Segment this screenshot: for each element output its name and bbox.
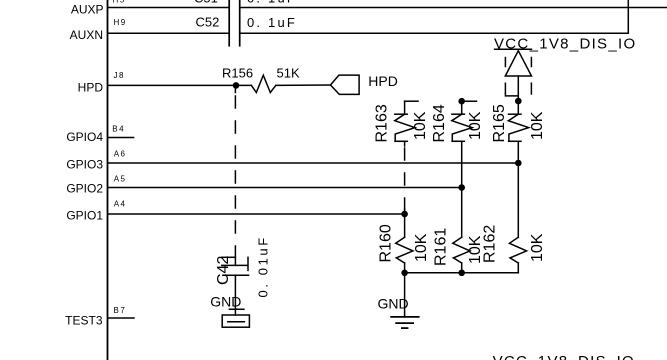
svg-text:C52: C52 [196, 14, 220, 29]
svg-text:GND: GND [210, 294, 241, 310]
svg-text:TEST3: TEST3 [65, 314, 103, 328]
svg-text:C51: C51 [194, 0, 218, 5]
svg-text:R161: R161 [433, 228, 450, 266]
svg-text:C42: C42 [215, 256, 232, 285]
svg-text:GPIO3: GPIO3 [66, 158, 103, 172]
svg-text:GND: GND [378, 296, 409, 312]
svg-text:R160: R160 [378, 224, 395, 262]
svg-text:J8: J8 [114, 71, 125, 80]
svg-text:R164: R164 [431, 104, 448, 142]
svg-text:AUXP: AUXP [71, 2, 104, 16]
svg-text:B4: B4 [112, 124, 125, 133]
svg-text:H5: H5 [113, 0, 126, 4]
svg-text:HPD: HPD [368, 73, 398, 89]
svg-text:VCC_1V8_DIS_IO: VCC_1V8_DIS_IO [493, 353, 635, 360]
svg-text:B7: B7 [114, 306, 127, 315]
svg-text:10K: 10K [412, 111, 429, 140]
svg-text:GPIO2: GPIO2 [66, 182, 103, 196]
svg-text:R165: R165 [491, 104, 508, 142]
svg-text:0. 1uF: 0. 1uF [247, 15, 297, 30]
svg-text:AUXN: AUXN [70, 28, 103, 42]
svg-text:10K: 10K [529, 233, 546, 262]
svg-text:10K: 10K [529, 111, 546, 140]
svg-text:0. 01uF: 0. 01uF [256, 235, 271, 297]
svg-text:51K: 51K [277, 66, 300, 81]
svg-text:HPD: HPD [78, 81, 104, 95]
svg-text:A5: A5 [114, 174, 127, 183]
svg-text:VCC_1V8_DIS_IO: VCC_1V8_DIS_IO [494, 35, 636, 52]
svg-text:R162: R162 [482, 225, 499, 263]
svg-text:10K: 10K [467, 111, 484, 140]
svg-text:A6: A6 [114, 149, 127, 158]
svg-text:GPIO4: GPIO4 [66, 130, 103, 144]
svg-text:GPIO1: GPIO1 [66, 208, 103, 222]
svg-text:R163: R163 [374, 104, 391, 142]
svg-text:H9: H9 [114, 18, 127, 27]
svg-text:R156: R156 [222, 66, 253, 81]
svg-text:A4: A4 [114, 199, 127, 208]
svg-text:0. 1uF: 0. 1uF [247, 0, 297, 5]
svg-text:10K: 10K [413, 233, 430, 262]
